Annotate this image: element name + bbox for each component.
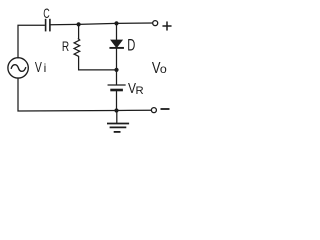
- ground: [108, 124, 128, 132]
- wire resistor bottom lead to node: [79, 57, 117, 70]
- svg-text:o: o: [160, 62, 167, 76]
- node at diode-resistor junction: [114, 68, 118, 72]
- node at resistor top: [77, 22, 81, 26]
- svg-text:C: C: [43, 5, 50, 22]
- node at diode top: [114, 21, 118, 25]
- wire top from capacitor to + terminal: [51, 23, 153, 25]
- svg-text:R: R: [136, 85, 144, 97]
- wire battery to bottom rail: [116, 91, 118, 110]
- minus sign: [161, 108, 168, 110]
- resistor R: [74, 39, 80, 56]
- node at bottom rail: [114, 108, 118, 112]
- svg-text:V: V: [35, 58, 42, 75]
- wire ground stub: [116, 111, 118, 123]
- ac source sine wave: [11, 65, 25, 72]
- wire resistor top lead: [78, 24, 80, 38]
- ac source Vi circle: [8, 58, 28, 78]
- svg-text:D: D: [127, 35, 135, 54]
- terminal top-right open circle: [153, 21, 158, 26]
- wire bottom rail and left riser: [18, 78, 151, 111]
- capacitor C: [46, 20, 50, 31]
- battery VR: [108, 85, 125, 90]
- wire diode cathode down through node to battery: [116, 49, 118, 84]
- svg-text:R: R: [62, 38, 69, 54]
- wire top-left riser and segment to capacitor: [18, 25, 44, 58]
- diode D: [110, 40, 123, 48]
- plus sign: [163, 22, 171, 30]
- svg-text:i: i: [44, 61, 47, 75]
- wire diode top lead: [116, 23, 118, 40]
- terminal bottom-right open circle: [151, 108, 156, 113]
